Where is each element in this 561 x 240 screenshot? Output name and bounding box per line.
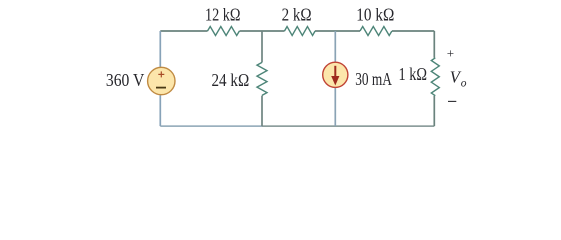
voltage source minus sign: [156, 87, 166, 89]
wire bottom left: [160, 125, 262, 127]
wire branch 24k top stub: [261, 31, 263, 62]
voltage source plus sign: [158, 71, 164, 77]
current source I1 30mA circle: [323, 62, 348, 87]
svg-text:+: +: [447, 46, 454, 61]
voltage source V1 360V circle: [148, 67, 175, 94]
svg-text:12 kΩ: 12 kΩ: [205, 4, 241, 24]
wire right vertical (above 1k): [433, 31, 435, 58]
wire bottom right: [262, 125, 434, 127]
svg-text:o: o: [461, 78, 467, 90]
svg-text:1 kΩ: 1 kΩ: [399, 64, 428, 84]
resistor R1 12 kOhm (horizontal zigzag): [208, 27, 240, 36]
current source arrow (downward): [334, 66, 336, 78]
svg-text:30 mA: 30 mA: [355, 69, 392, 89]
wire branch current source top stub: [334, 31, 336, 62]
node Vo minus polarity: [448, 100, 456, 102]
svg-text:2 kΩ: 2 kΩ: [282, 5, 312, 25]
resistor R5 1 kOhm (vertical zigzag): [431, 58, 439, 96]
wire top: node A to node B to node C to node D: [160, 30, 434, 32]
wire branch current source bottom stub: [334, 87, 336, 126]
svg-text:360 V: 360 V: [106, 70, 145, 90]
wire left vertical (top of source): [159, 31, 161, 67]
resistor R3 10 kOhm (horizontal zigzag): [360, 27, 392, 36]
svg-text:10 kΩ: 10 kΩ: [356, 4, 394, 24]
wire left vertical (bottom of source): [159, 95, 161, 126]
resistor R4 24 kOhm (vertical zigzag): [257, 62, 267, 95]
wire right vertical (below 1k): [433, 96, 435, 126]
resistor R2 2 kOhm (horizontal zigzag): [285, 27, 316, 36]
wire branch 24k bottom stub: [261, 96, 263, 127]
svg-text:24 kΩ: 24 kΩ: [212, 70, 250, 90]
